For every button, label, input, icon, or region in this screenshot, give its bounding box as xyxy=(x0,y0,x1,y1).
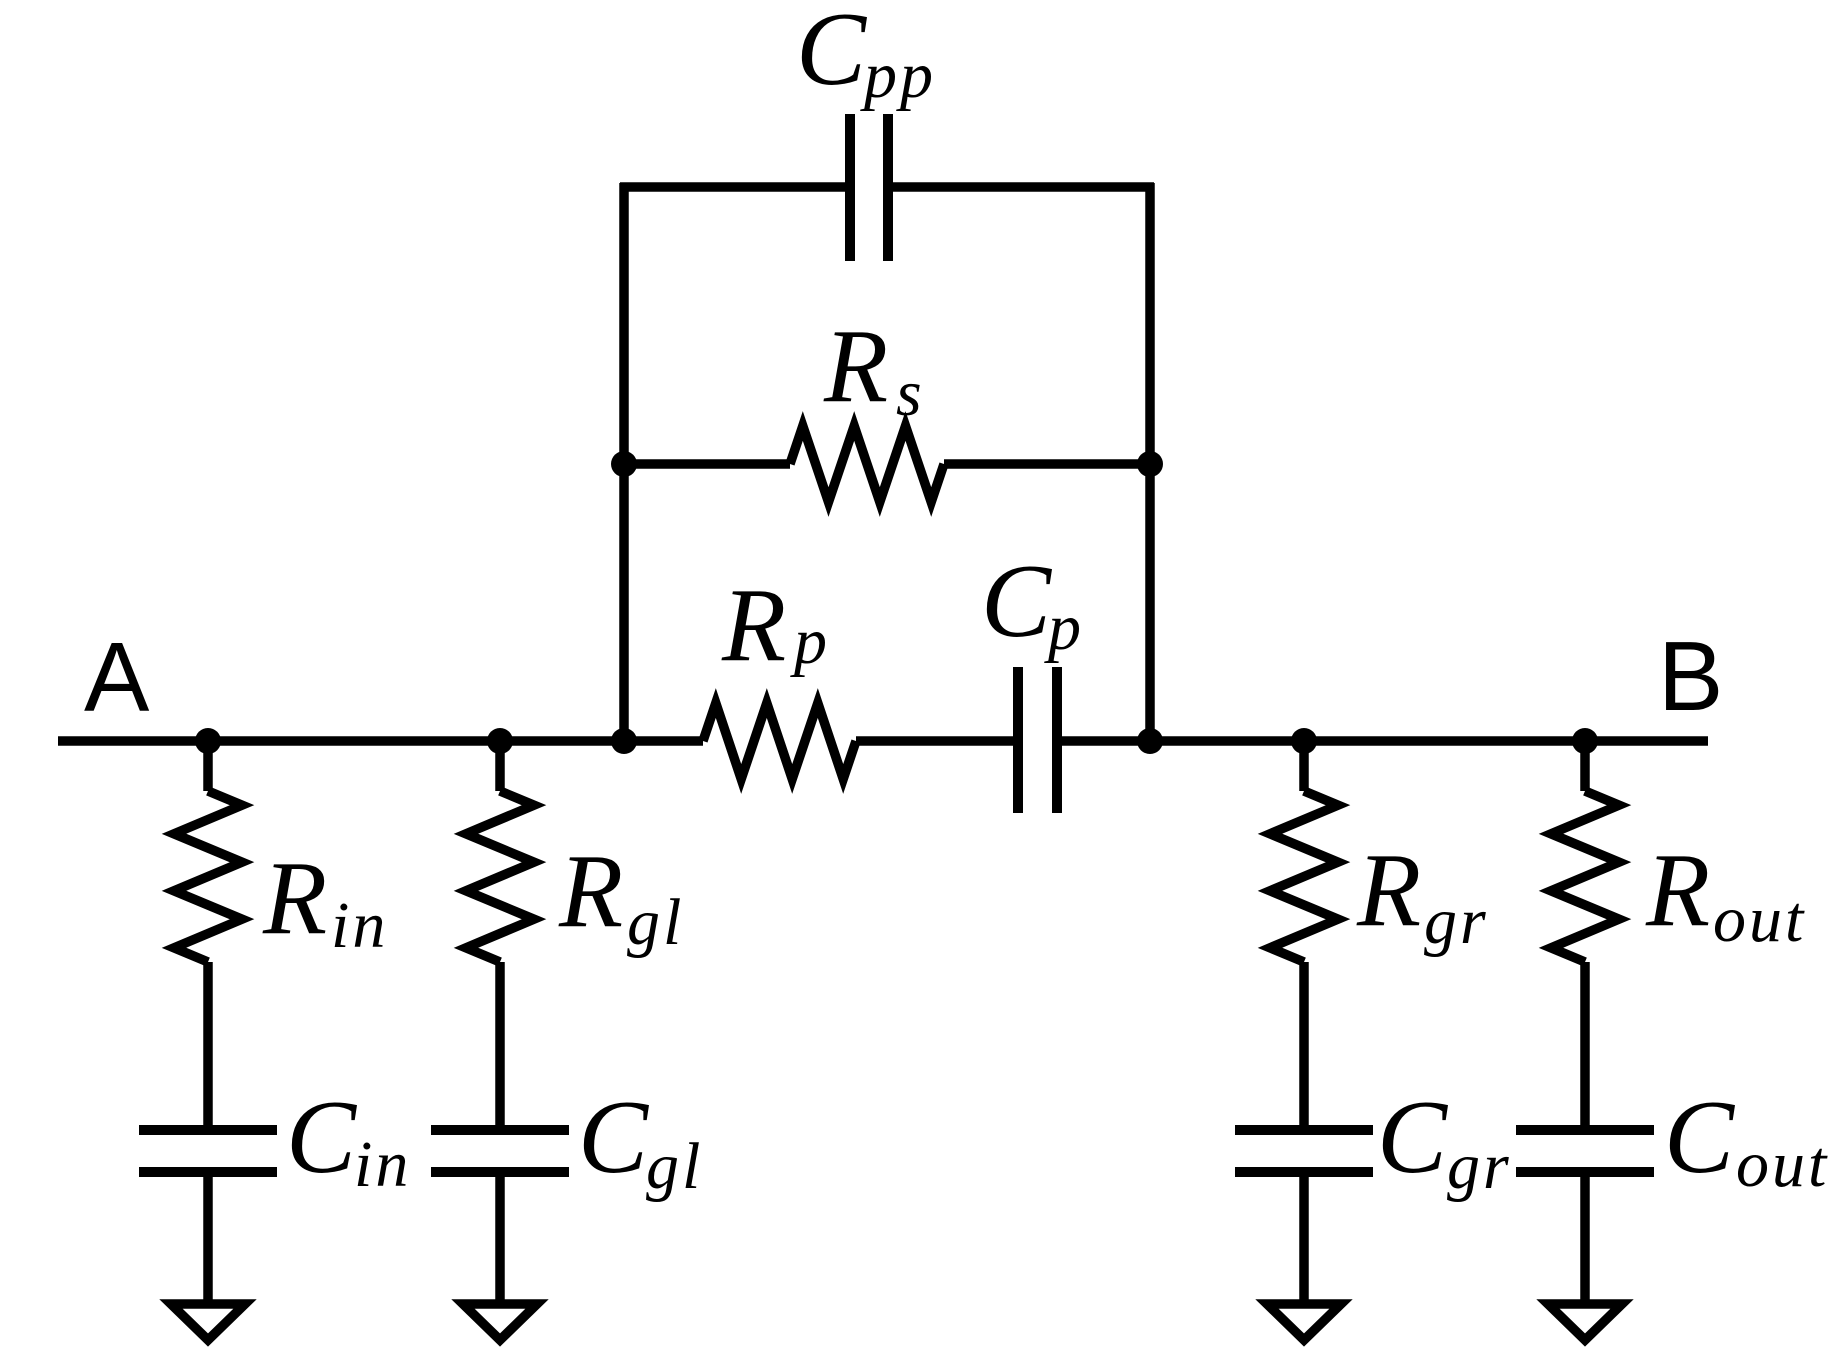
capacitor Cgr xyxy=(1235,1130,1373,1172)
wire Rgr to Cgr xyxy=(1299,962,1309,1125)
wire Rin to Cin xyxy=(203,962,213,1125)
svg-text:R: R xyxy=(1645,831,1710,948)
svg-text:C: C xyxy=(981,542,1053,659)
wire top branch right of Cpp xyxy=(893,182,1154,192)
svg-text:C: C xyxy=(578,1078,650,1195)
svg-text:C: C xyxy=(796,0,868,107)
capacitor Cgl xyxy=(431,1130,569,1172)
ground under Cgr xyxy=(1267,1304,1341,1340)
capacitor Cin xyxy=(139,1130,277,1172)
wire Rs branch right lead xyxy=(944,459,1150,469)
junction dot Rgr bus xyxy=(1291,728,1317,754)
wire Rout to Cout xyxy=(1580,962,1590,1125)
wire top branch left of Cpp xyxy=(620,182,846,192)
svg-text:in: in xyxy=(354,1128,411,1201)
wire Cin to ground xyxy=(203,1177,213,1304)
ground under Cin xyxy=(171,1304,245,1340)
resistor Rgr xyxy=(1270,791,1338,962)
ground under Cout xyxy=(1548,1304,1622,1340)
wire main bus between Rp and Cp xyxy=(856,736,1014,746)
svg-text:gl: gl xyxy=(627,886,684,959)
wire right vertical riser node to Cpp branch xyxy=(1145,183,1155,741)
wire left vertical riser node to Cpp branch xyxy=(619,183,629,741)
svg-text:R: R xyxy=(823,307,888,424)
svg-text:A: A xyxy=(84,622,150,732)
svg-text:C: C xyxy=(1664,1078,1736,1195)
svg-text:C: C xyxy=(1377,1078,1449,1195)
junction dot Rout bus xyxy=(1572,728,1598,754)
wire Rgr branch upper lead xyxy=(1299,740,1309,791)
wire Rout branch upper lead xyxy=(1580,740,1590,791)
resistor Rs xyxy=(790,426,944,502)
svg-text:pp: pp xyxy=(860,39,936,112)
svg-text:s: s xyxy=(896,357,925,430)
junction dot Rin bus xyxy=(195,728,221,754)
resistor Rgl xyxy=(466,791,534,962)
svg-text:R: R xyxy=(721,566,786,683)
wire Rin branch upper lead xyxy=(203,740,213,791)
capacitor Cout xyxy=(1516,1130,1654,1172)
svg-text:in: in xyxy=(331,889,388,962)
wire Rgl to Cgl xyxy=(495,962,505,1125)
junction dot Rgl bus xyxy=(487,728,513,754)
wire Cgl to ground xyxy=(495,1177,505,1304)
svg-text:R: R xyxy=(262,839,327,956)
svg-text:C: C xyxy=(286,1078,358,1195)
wire Cgr to ground xyxy=(1299,1177,1309,1304)
junction dot left node on Rs branch xyxy=(611,451,637,477)
wire Cout to ground xyxy=(1580,1177,1590,1304)
svg-text:p: p xyxy=(790,605,830,678)
svg-text:R: R xyxy=(1356,831,1421,948)
junction dot left node on bus xyxy=(611,728,637,754)
resistor Rout xyxy=(1551,791,1619,962)
wire Rgl branch upper lead xyxy=(495,740,505,791)
capacitor Cp xyxy=(1018,667,1057,813)
svg-text:gl: gl xyxy=(646,1130,703,1203)
capacitor Cpp xyxy=(850,114,888,261)
svg-text:p: p xyxy=(1044,591,1084,664)
svg-text:out: out xyxy=(1713,883,1806,956)
wire Rs branch left lead xyxy=(624,459,790,469)
svg-text:B: B xyxy=(1658,621,1723,731)
wire main bus A-B left segment xyxy=(58,736,703,746)
resistor Rp xyxy=(703,703,856,779)
junction dot right node on Rs branch xyxy=(1137,451,1163,477)
svg-text:gr: gr xyxy=(1424,885,1489,958)
junction dot right node on bus xyxy=(1137,728,1163,754)
svg-text:out: out xyxy=(1736,1128,1829,1201)
svg-text:R: R xyxy=(558,832,623,949)
resistor Rin xyxy=(174,791,242,962)
svg-text:gr: gr xyxy=(1447,1130,1512,1203)
ground under Cgl xyxy=(463,1304,537,1340)
wire main bus right segment xyxy=(1061,736,1708,746)
